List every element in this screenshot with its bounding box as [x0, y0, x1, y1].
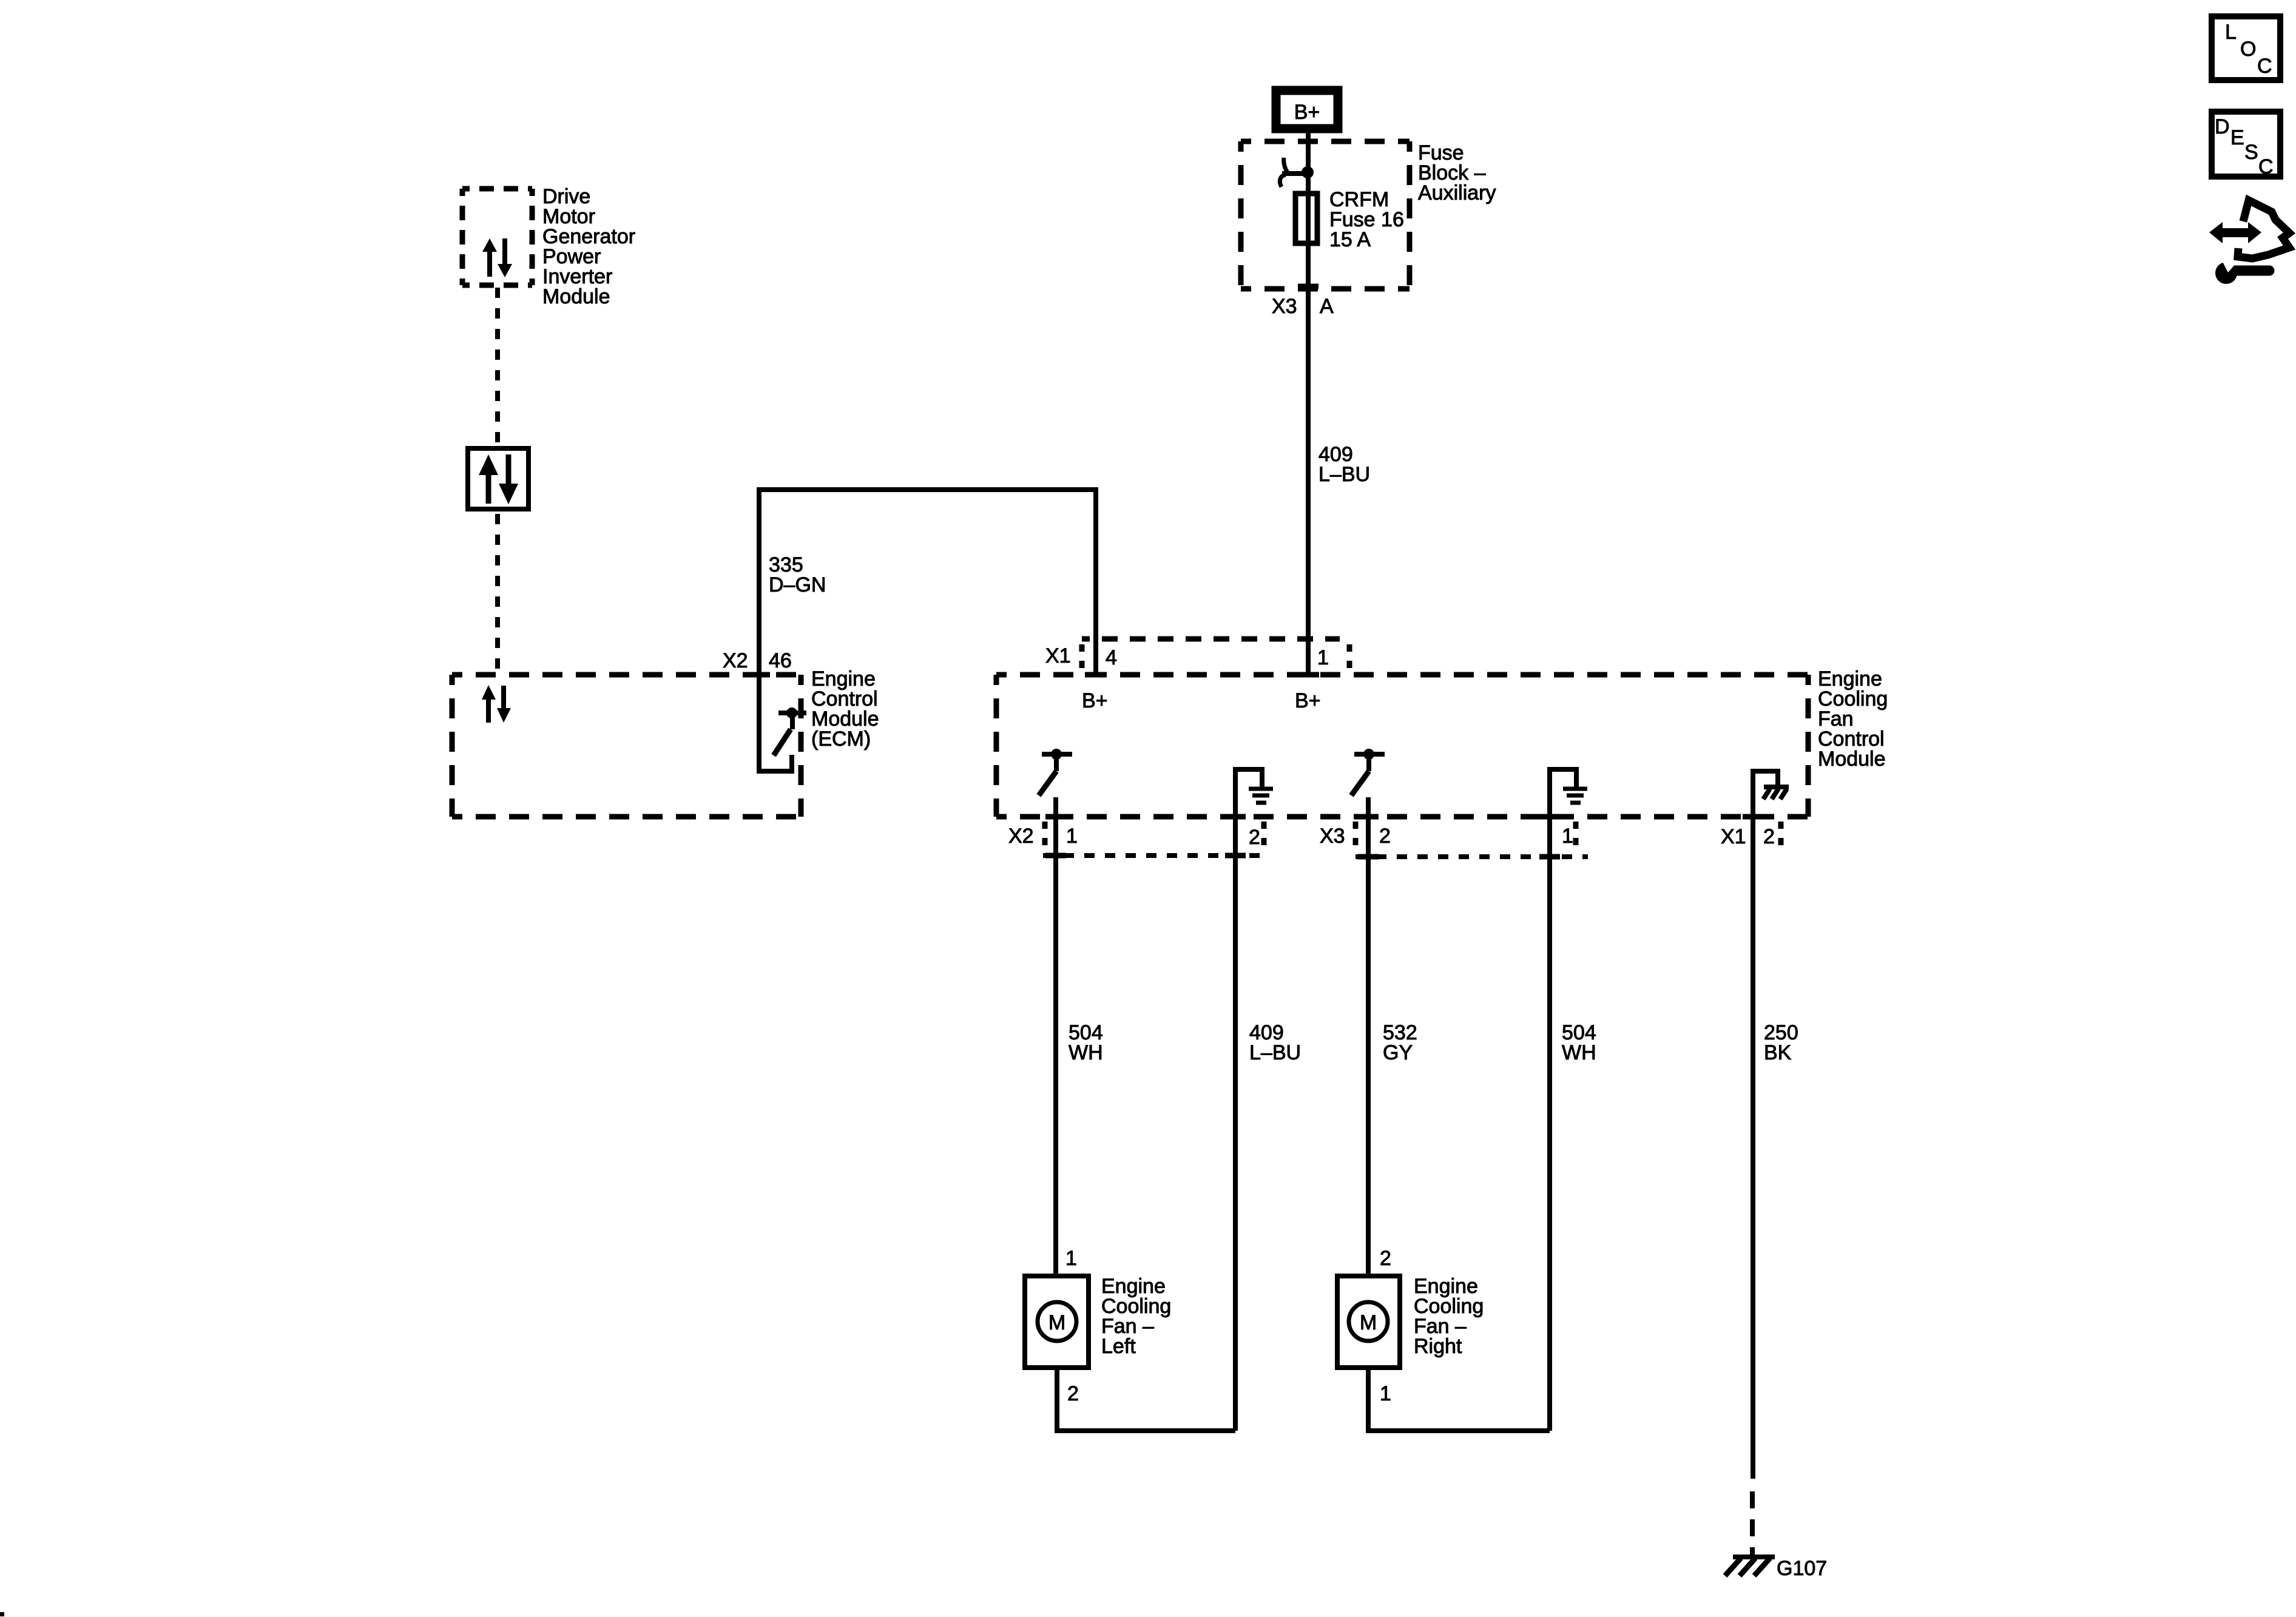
svg-text:(ECM): (ECM)	[811, 727, 871, 751]
svg-text:46: 46	[769, 649, 792, 672]
svg-text:2: 2	[1249, 826, 1260, 849]
svg-text:X3: X3	[1320, 825, 1345, 848]
svg-text:L–BU: L–BU	[1249, 1041, 1301, 1064]
svg-text:Right: Right	[1414, 1335, 1462, 1358]
svg-text:B+: B+	[1295, 689, 1321, 712]
svg-text:2: 2	[1380, 1247, 1391, 1270]
svg-text:E: E	[2230, 126, 2244, 149]
svg-text:15 A: 15 A	[1329, 228, 1371, 251]
svg-text:M: M	[1048, 1311, 1065, 1334]
svg-text:X2: X2	[1008, 825, 1034, 848]
svg-text:BK: BK	[1764, 1041, 1792, 1064]
svg-text:G107: G107	[1777, 1557, 1827, 1580]
svg-text:C: C	[2257, 55, 2272, 78]
svg-text:GY: GY	[1383, 1041, 1413, 1064]
svg-text:M: M	[1360, 1311, 1377, 1334]
svg-text:Module: Module	[542, 285, 610, 308]
svg-text:A: A	[1320, 295, 1334, 318]
svg-text:O: O	[2240, 38, 2256, 61]
svg-text:2: 2	[1379, 825, 1391, 848]
svg-text:WH: WH	[1562, 1041, 1596, 1064]
svg-text:X2: X2	[723, 649, 748, 672]
svg-text:S: S	[2244, 141, 2258, 164]
svg-text:D–GN: D–GN	[769, 573, 826, 596]
svg-text:1: 1	[1380, 1382, 1391, 1405]
svg-text:D: D	[2215, 115, 2230, 138]
svg-text:2: 2	[1067, 1382, 1079, 1405]
svg-text:Left: Left	[1101, 1335, 1136, 1358]
svg-text:WH: WH	[1069, 1041, 1103, 1064]
svg-text:B+: B+	[1082, 689, 1108, 712]
svg-text:Module: Module	[1818, 748, 1886, 771]
svg-text:4: 4	[1106, 646, 1117, 669]
svg-text:Auxiliary: Auxiliary	[1418, 181, 1496, 204]
svg-text:1: 1	[1066, 825, 1078, 848]
svg-text:X3: X3	[1272, 295, 1297, 318]
svg-text:L–BU: L–BU	[1319, 463, 1370, 486]
svg-text:2: 2	[1763, 825, 1775, 848]
svg-text:1: 1	[1065, 1247, 1077, 1270]
svg-text:1: 1	[1562, 825, 1573, 848]
svg-text:X1: X1	[1721, 825, 1746, 848]
svg-text:1: 1	[1317, 646, 1329, 669]
svg-text:C: C	[2258, 155, 2274, 178]
svg-text:B+: B+	[1294, 101, 1320, 124]
svg-text:X1: X1	[1045, 644, 1071, 667]
svg-text:L: L	[2225, 21, 2237, 44]
